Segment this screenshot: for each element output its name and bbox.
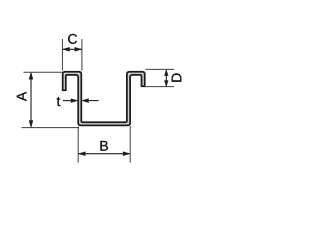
label C	[68, 34, 77, 44]
dimension C extension line right	[81, 39, 83, 71]
dimension B extension line right	[129, 126, 131, 163]
dimension A arrow line	[30, 73, 32, 127]
label t	[57, 97, 61, 106]
dimension t right arrow	[89, 100, 99, 102]
label D (rotated)	[172, 73, 182, 81]
dimension D arrow line	[165, 70, 167, 86]
dimension B arrow line	[79, 153, 130, 155]
hat-channel profile outline	[63, 72, 145, 126]
dimension t left arrow	[63, 100, 71, 102]
dimension C extension line left	[61, 39, 63, 71]
dimension D extension line bottom	[144, 86, 174, 88]
label A (rotated)	[17, 92, 27, 101]
dimension D extension line top	[146, 68, 175, 70]
dimension B extension line left	[77, 127, 79, 163]
dimension A extension line top	[24, 71, 64, 73]
dimension C arrow line	[63, 48, 81, 50]
label B	[100, 141, 107, 151]
dimension A extension line bottom	[22, 127, 80, 129]
